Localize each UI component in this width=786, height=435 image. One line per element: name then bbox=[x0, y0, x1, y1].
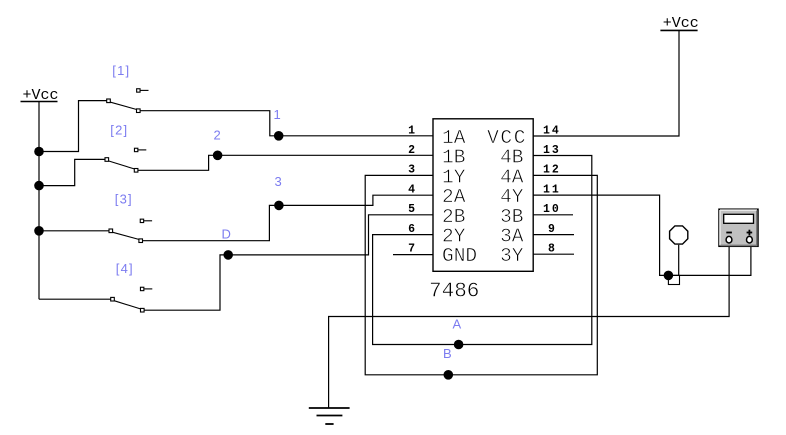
svg-text:7486: 7486 bbox=[429, 281, 479, 304]
svg-text:1B: 1B bbox=[442, 147, 465, 169]
wire: S3 to pin 4 (node 3, net D) bbox=[143, 195, 433, 241]
svg-text:2: 2 bbox=[214, 128, 221, 143]
wire: pin 6 (2Y) to pin 13 (4B), net A bbox=[373, 156, 592, 345]
svg-text:3Y: 3Y bbox=[500, 245, 524, 267]
svg-text:D: D bbox=[222, 226, 231, 241]
switch S3 [3] bbox=[109, 219, 152, 242]
svg-text:3: 3 bbox=[408, 164, 415, 177]
svg-text:[4]: [4] bbox=[116, 261, 134, 276]
wire: pin 11 (4Y) to meter + bbox=[533, 195, 751, 275]
wire: pin 8 stub bbox=[533, 253, 574, 255]
switch S1 [1] bbox=[107, 89, 149, 113]
svg-text:3: 3 bbox=[275, 174, 282, 189]
svg-text:2Y: 2Y bbox=[442, 226, 466, 248]
svg-text:1A: 1A bbox=[442, 127, 466, 149]
IC U1 7486 bbox=[433, 119, 533, 271]
svg-text:9: 9 bbox=[548, 223, 555, 236]
svg-text:8: 8 bbox=[548, 243, 555, 256]
ground symbol bbox=[309, 408, 350, 424]
svg-text:13: 13 bbox=[543, 144, 561, 157]
wire: S1 to pin 1 (node 1) bbox=[140, 111, 433, 136]
svg-text:5: 5 bbox=[408, 203, 415, 216]
switch S2 [2] bbox=[105, 148, 146, 172]
node 1 bbox=[274, 131, 284, 141]
ground wire: ground symbol to meter - bbox=[329, 246, 729, 408]
wire: pin 10 stub bbox=[533, 214, 573, 216]
svg-text:2B: 2B bbox=[442, 206, 465, 228]
junction: rail-S1 bbox=[34, 147, 44, 157]
node B bbox=[444, 370, 454, 380]
pin numbers left bbox=[408, 125, 415, 256]
svg-text:1: 1 bbox=[408, 125, 415, 138]
power +Vcc (right) bbox=[660, 15, 698, 32]
svg-text:11: 11 bbox=[543, 183, 561, 196]
wire: rail to switch S3 bbox=[39, 230, 109, 232]
pin numbers right bbox=[543, 125, 561, 256]
junction: rail-S3 bbox=[34, 226, 44, 236]
svg-text:VCC: VCC bbox=[487, 127, 527, 149]
svg-text:4: 4 bbox=[408, 183, 415, 196]
node 3 bbox=[274, 201, 284, 211]
svg-text:6: 6 bbox=[408, 223, 415, 236]
power +Vcc (left) bbox=[21, 87, 59, 104]
indicator probe X1 bbox=[668, 226, 687, 285]
svg-text:GND: GND bbox=[442, 245, 477, 267]
svg-text:4Y: 4Y bbox=[500, 186, 524, 208]
svg-text:12: 12 bbox=[543, 164, 561, 177]
svg-text:4A: 4A bbox=[500, 166, 524, 188]
svg-text:4B: 4B bbox=[500, 147, 523, 169]
wire: rail to switch S2 bbox=[39, 159, 105, 185]
svg-text:3A: 3A bbox=[500, 226, 524, 248]
svg-text:[1]: [1] bbox=[112, 63, 130, 78]
wire: rail to switch S4 bbox=[39, 298, 111, 300]
node A bbox=[454, 340, 464, 350]
wire: S2 to pin 2 (node 2) bbox=[138, 155, 433, 170]
wire: S4 to pin 5 bbox=[144, 215, 433, 310]
wire: pin 14 to +Vcc right bbox=[533, 30, 679, 136]
multimeter M1 bbox=[719, 209, 758, 246]
svg-text:10: 10 bbox=[543, 203, 561, 216]
wire: pin 9 stub bbox=[533, 234, 574, 236]
svg-text:B: B bbox=[443, 346, 452, 361]
svg-text:7: 7 bbox=[408, 243, 415, 256]
wire: pin 3 (1Y) to pin 12 (4A), net B bbox=[365, 175, 597, 374]
svg-text:[3]: [3] bbox=[115, 191, 133, 206]
wire: pin 7 stub bbox=[393, 254, 433, 256]
junction: S4 net bbox=[223, 250, 233, 260]
wire: rail to switch S1 bbox=[39, 101, 107, 152]
wire: left Vcc rail bbox=[38, 102, 40, 300]
switch S4 [4] bbox=[111, 287, 153, 312]
svg-text:3B: 3B bbox=[500, 206, 523, 228]
svg-text:2: 2 bbox=[408, 144, 415, 157]
node 2 bbox=[213, 151, 223, 161]
junction: probe node bbox=[664, 271, 674, 281]
svg-text:1: 1 bbox=[274, 107, 281, 122]
svg-text:A: A bbox=[453, 317, 462, 332]
junction: rail-S2 bbox=[34, 181, 44, 191]
svg-text:[2]: [2] bbox=[110, 123, 128, 138]
svg-text:1Y: 1Y bbox=[442, 166, 466, 188]
svg-text:2A: 2A bbox=[442, 186, 466, 208]
